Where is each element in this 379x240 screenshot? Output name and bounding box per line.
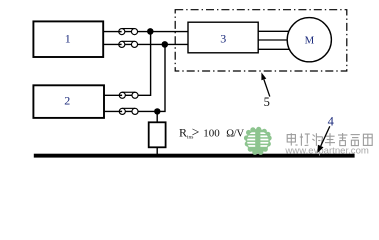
ground bus (thick earth line) bbox=[34, 154, 355, 158]
node B junction dot bbox=[162, 41, 169, 48]
wire A (box1 top output to controller) bbox=[103, 31, 188, 33]
node A junction dot bbox=[147, 28, 154, 35]
resistor R (insulation resistor) bbox=[149, 122, 166, 147]
svg-text:5: 5 bbox=[264, 95, 270, 109]
box 1 (battery pack 1) bbox=[33, 21, 103, 57]
wire motor phase 2 bbox=[258, 39, 296, 41]
wire C (box2 top output, corner up to node A) bbox=[104, 31, 151, 95]
watermark chinese text bbox=[287, 133, 372, 146]
svg-text:4: 4 bbox=[328, 114, 335, 128]
wire motor phase 1 bbox=[258, 30, 296, 32]
wire resistor branch top bbox=[156, 111, 158, 122]
watermark logo bbox=[244, 127, 272, 155]
box 3 (motor controller) bbox=[188, 22, 258, 53]
node D junction dot (resistor tap) bbox=[154, 108, 160, 114]
svg-text:M: M bbox=[305, 34, 315, 46]
connector pair on wire D bbox=[119, 108, 138, 114]
box 2 (battery pack 2) bbox=[33, 85, 104, 118]
wire resistor branch bottom to ground bbox=[156, 147, 158, 155]
wire B (box1 bottom output to controller) bbox=[103, 43, 188, 45]
wire D (box2 bottom output, corner up to node B) bbox=[104, 44, 165, 111]
connector pair on wire B bbox=[119, 41, 138, 47]
callout 4 arrow bbox=[321, 126, 330, 146]
wire motor phase 3 bbox=[258, 48, 296, 50]
callout 5 arrow bbox=[264, 80, 270, 97]
svg-text:2: 2 bbox=[64, 94, 70, 108]
svg-text:3: 3 bbox=[220, 31, 226, 45]
motor M bbox=[287, 18, 331, 62]
svg-text:1: 1 bbox=[65, 32, 71, 46]
svg-text:www.evpartner.com: www.evpartner.com bbox=[284, 145, 369, 155]
connector pair on wire C bbox=[119, 92, 138, 98]
dash-dot enclosure 5 (drive unit boundary) bbox=[175, 10, 347, 71]
connector pair on wire A bbox=[119, 29, 138, 35]
